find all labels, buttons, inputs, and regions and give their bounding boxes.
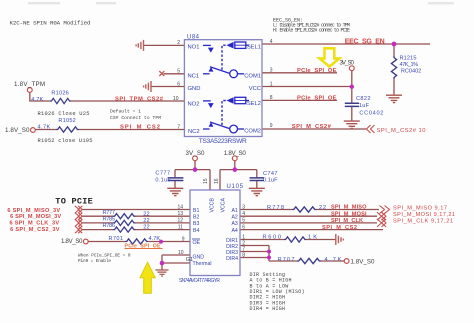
- svg-text:6 SPI_M_CLK_3V: 6 SPI_M_CLK_3V: [10, 221, 60, 227]
- svg-text:R707: R707: [278, 257, 295, 263]
- svg-text:9: 9: [270, 123, 273, 129]
- svg-text:K2C-NE SPIN R0A Modified: K2C-NE SPIN R0A Modified: [10, 20, 91, 27]
- svg-text:SPI_M_MOSI: SPI_M_MOSI: [331, 211, 367, 217]
- svg-text:11: 11: [178, 224, 183, 230]
- svg-text:VCCB: VCCB: [209, 198, 215, 213]
- svg-text:Pin9 = Enable: Pin9 = Enable: [78, 259, 111, 264]
- svg-text:B1: B1: [193, 208, 199, 214]
- svg-text:SPI_M_CS2#: SPI_M_CS2#: [292, 124, 332, 130]
- svg-text:A4: A4: [231, 228, 237, 234]
- svg-text:C747: C747: [263, 171, 278, 177]
- svg-text:16: 16: [214, 178, 220, 184]
- svg-text:VCC: VCC: [249, 86, 261, 92]
- svg-text:3: 3: [242, 204, 245, 210]
- svg-text:4.7K: 4.7K: [38, 125, 51, 131]
- svg-text:CC0402: CC0402: [359, 111, 383, 117]
- svg-text:SEL2: SEL2: [247, 101, 261, 107]
- svg-text:1.8V_S0: 1.8V_S0: [351, 259, 376, 266]
- svg-text:22: 22: [143, 218, 149, 224]
- svg-text:TO PCIE: TO PCIE: [55, 196, 93, 206]
- svg-text:COM1: COM1: [244, 74, 261, 80]
- svg-text:SPI_M_CS2: SPI_M_CS2: [322, 225, 357, 231]
- svg-text:PCIe_SPI_OE: PCIe_SPI_OE: [297, 96, 337, 102]
- svg-text:SPI_M_MISO 9,17: SPI_M_MISO 9,17: [393, 205, 447, 211]
- svg-text:4: 4: [270, 39, 273, 45]
- svg-text:R1026 Close U25: R1026 Close U25: [38, 111, 90, 117]
- svg-text:B4: B4: [193, 228, 199, 234]
- svg-text:1.8V_S0: 1.8V_S0: [61, 238, 83, 245]
- svg-text:4.7K: 4.7K: [31, 97, 43, 103]
- svg-text:8: 8: [242, 252, 245, 258]
- svg-text:A3: A3: [231, 221, 237, 227]
- svg-text:13: 13: [177, 211, 183, 217]
- svg-text:SEL1: SEL1: [247, 44, 261, 50]
- svg-text:47K_1%: 47K_1%: [400, 62, 419, 68]
- svg-text:4.7K: 4.7K: [325, 257, 342, 263]
- svg-text:NC2: NC2: [188, 129, 200, 135]
- svg-text:7: 7: [177, 124, 180, 130]
- svg-text:B2: B2: [193, 215, 199, 221]
- svg-text:SPI_M_MISO: SPI_M_MISO: [331, 205, 367, 211]
- svg-text:NC1: NC1: [188, 74, 200, 80]
- svg-text:22: 22: [319, 205, 326, 211]
- svg-text:3V_S0: 3V_S0: [186, 150, 206, 157]
- svg-text:R1052: R1052: [58, 118, 75, 124]
- svg-text:VCCA: VCCA: [220, 198, 226, 213]
- svg-text:SPI_M_CS2: SPI_M_CS2: [120, 125, 160, 131]
- svg-text:14: 14: [177, 204, 183, 210]
- svg-text:C777: C777: [155, 171, 170, 177]
- svg-text:6 SPI_M_CS2_3V: 6 SPI_M_CS2_3V: [10, 227, 60, 233]
- svg-text:6: 6: [177, 81, 180, 87]
- svg-text:CS# Connect to TPM: CS# Connect to TPM: [110, 115, 161, 121]
- svg-text:3: 3: [270, 68, 273, 74]
- svg-text:1.8V_S0: 1.8V_S0: [5, 127, 30, 134]
- svg-text:SPI_M_CLK: SPI_M_CLK: [331, 218, 363, 224]
- svg-text:GND: GND: [193, 254, 205, 260]
- svg-text:4: 4: [242, 211, 245, 217]
- svg-text:1.8V_TPM: 1.8V_TPM: [14, 81, 45, 88]
- svg-text:1.8V_S0: 1.8V_S0: [224, 150, 247, 157]
- svg-text:R1215: R1215: [400, 56, 417, 62]
- svg-text:1: 1: [270, 81, 273, 87]
- svg-text:5: 5: [242, 218, 245, 224]
- svg-text:SPI_M_CS2# 10: SPI_M_CS2# 10: [377, 128, 426, 134]
- svg-text:H: Enable SPI_M_CS2# connec to: H: Enable SPI_M_CS2# connec to PCIE: [273, 28, 350, 34]
- svg-text:5: 5: [177, 69, 180, 75]
- svg-text:GND: GND: [188, 86, 201, 92]
- svg-text:R1026: R1026: [51, 90, 68, 96]
- svg-text:NO2: NO2: [188, 101, 200, 107]
- svg-text:U105: U105: [227, 184, 244, 190]
- svg-text:SN74AVC4T774RGYR: SN74AVC4T774RGYR: [179, 278, 220, 284]
- svg-text:R1052 close U105: R1052 close U105: [38, 138, 93, 144]
- svg-text:SPI_M_CLK 9,17,21: SPI_M_CLK 9,17,21: [393, 219, 453, 225]
- svg-text:A2: A2: [231, 215, 237, 221]
- svg-text:22: 22: [143, 225, 149, 231]
- svg-text:DIR4 = HIGH: DIR4 = HIGH: [250, 306, 286, 312]
- svg-text:U84: U84: [187, 35, 200, 41]
- svg-text:R777: R777: [103, 210, 116, 216]
- svg-text:3V_S0: 3V_S0: [340, 60, 355, 67]
- svg-text:6 SPI_M_MOSI_3V: 6 SPI_M_MOSI_3V: [10, 214, 61, 220]
- svg-text:10: 10: [173, 96, 179, 102]
- svg-text:B3: B3: [193, 221, 199, 227]
- svg-text:PCIe_SPI_OE: PCIe_SPI_OE: [297, 68, 337, 74]
- svg-text:0.1uF: 0.1uF: [155, 177, 171, 183]
- svg-text:4.7K: 4.7K: [149, 236, 161, 242]
- svg-text:R701: R701: [109, 236, 124, 242]
- svg-text:12: 12: [177, 218, 183, 224]
- svg-text:8: 8: [270, 95, 273, 101]
- svg-text:A1: A1: [231, 208, 237, 214]
- svg-text:RC0402: RC0402: [401, 68, 421, 74]
- svg-text:10: 10: [178, 250, 184, 256]
- svg-text:Default = 1: Default = 1: [110, 108, 141, 114]
- svg-text:2: 2: [177, 40, 180, 46]
- svg-text:R786: R786: [103, 223, 116, 229]
- svg-text:1K: 1K: [308, 235, 317, 241]
- svg-text:COM2: COM2: [244, 129, 261, 135]
- svg-text:0.1uF: 0.1uF: [263, 177, 278, 183]
- svg-text:EEC_SG_EN: EEC_SG_EN: [345, 39, 385, 46]
- svg-text:G1: G1: [186, 257, 193, 263]
- svg-text:6: 6: [242, 224, 245, 230]
- svg-text:OE: OE: [193, 240, 201, 246]
- svg-text:15: 15: [203, 178, 209, 184]
- svg-text:When PCIe_SPI_OE = 0: When PCIe_SPI_OE = 0: [78, 254, 131, 259]
- svg-text:6 SPI_M_MISO_3V: 6 SPI_M_MISO_3V: [7, 208, 60, 214]
- svg-text:DIR4: DIR4: [226, 256, 238, 262]
- svg-text:9: 9: [182, 236, 185, 242]
- svg-text:C822: C822: [356, 96, 371, 102]
- svg-text:Thermal: Thermal: [193, 261, 212, 267]
- svg-text:TS3A5223RSWR: TS3A5223RSWR: [199, 138, 247, 145]
- svg-text:22: 22: [143, 211, 149, 217]
- svg-text:1uF: 1uF: [359, 103, 370, 109]
- svg-text:NO1: NO1: [188, 44, 200, 50]
- svg-text:R785: R785: [103, 216, 116, 222]
- svg-text:SPI_TPM_CS2#: SPI_TPM_CS2#: [115, 96, 164, 102]
- svg-text:SPI_M_MOSI 9,17,21: SPI_M_MOSI 9,17,21: [393, 212, 455, 218]
